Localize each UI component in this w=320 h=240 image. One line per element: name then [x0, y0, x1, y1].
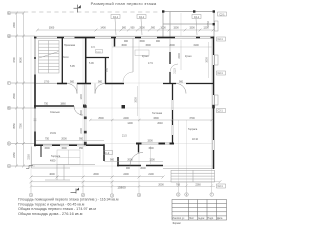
- svg-text:2500: 2500: [98, 117, 104, 120]
- svg-text:Прихожая: Прихожая: [64, 44, 76, 47]
- svg-text:1500: 1500: [173, 27, 179, 30]
- svg-text:5.06: 5.06: [89, 62, 94, 65]
- svg-text:С2-1: С2-1: [218, 72, 224, 75]
- svg-text:Размерный план первого этажа: Размерный план первого этажа: [91, 1, 157, 6]
- svg-text:4000: 4000: [49, 173, 55, 176]
- chimney stub: [40, 146, 42, 157]
- svg-text:2000: 2000: [140, 167, 146, 170]
- level mark bottom: [71, 189, 77, 194]
- svg-text:1500: 1500: [139, 40, 145, 43]
- svg-text:С2-1: С2-1: [218, 110, 224, 113]
- right exterior wall: [213, 37, 215, 170]
- svg-text:Лист: Лист: [189, 217, 195, 220]
- svg-text:2000: 2000: [127, 159, 133, 162]
- svg-text:2250: 2250: [13, 152, 16, 158]
- svg-text:№док: №док: [198, 217, 205, 220]
- svg-text:900: 900: [179, 81, 184, 84]
- svg-text:Изм.Кол.уч: Изм.Кол.уч: [172, 217, 185, 220]
- bottom dims: [31, 176, 163, 178]
- colonnade band y143.5: [136, 143, 142, 145]
- svg-text:1860: 1860: [60, 103, 66, 106]
- svg-text:Площадь помещений первого этаж: Площадь помещений первого этажа (отаплив…: [18, 198, 119, 202]
- svg-text:2600: 2600: [93, 173, 99, 176]
- exterior left wall: [34, 37, 36, 39]
- right side tag boxes: [217, 37, 226, 188]
- svg-text:900: 900: [98, 81, 103, 84]
- svg-text:Формат: Формат: [173, 222, 182, 225]
- svg-text:1500: 1500: [189, 27, 195, 30]
- left rotated dim texts: [13, 22, 23, 158]
- svg-text:3550: 3550: [13, 123, 16, 129]
- staircase: [39, 41, 60, 74]
- svg-text:3000: 3000: [49, 27, 55, 30]
- svg-text:1400: 1400: [100, 27, 106, 30]
- svg-text:1500: 1500: [145, 44, 151, 47]
- interior dim row y47 right: [112, 46, 212, 48]
- svg-text:2040: 2040: [157, 122, 163, 125]
- mid dim row above y165 wall: [104, 161, 163, 163]
- room labels: [50, 44, 199, 163]
- svg-text:Сг-1: Сг-1: [96, 51, 101, 53]
- svg-text:3100: 3100: [193, 44, 199, 47]
- svg-text:Спальня: Спальня: [50, 111, 60, 114]
- svg-text:2100: 2100: [148, 173, 154, 176]
- svg-text:2000: 2000: [139, 27, 145, 30]
- svg-text:2300: 2300: [13, 22, 16, 28]
- svg-text:7200: 7200: [20, 123, 23, 129]
- svg-text:1200: 1200: [149, 159, 155, 162]
- bottom wall left section: [34, 144, 104, 146]
- svg-text:900: 900: [70, 81, 75, 84]
- window tag boxes top: [111, 12, 227, 35]
- svg-text:900: 900: [156, 40, 161, 43]
- wall y106: [34, 105, 74, 107]
- svg-text:2000: 2000: [178, 53, 181, 59]
- mid-bottom walls: [103, 144, 105, 161]
- interior dim row y120: [90, 119, 212, 121]
- entry door arc: [130, 153, 143, 166]
- exterior top wall: [34, 37, 214, 39]
- bottom-right terrace steps: [163, 169, 215, 183]
- svg-text:15.81: 15.81: [50, 132, 57, 135]
- svg-text:18.10: 18.10: [192, 138, 199, 141]
- top-right terrace outline: [163, 12, 214, 38]
- svg-text:С2-1: С2-1: [218, 185, 224, 188]
- svg-text:Общая площадь дома - 276.16 кв: Общая площадь дома - 276.16 кв.м: [18, 211, 83, 216]
- svg-text:4700: 4700: [13, 57, 16, 63]
- interior vertical dim chain x84.5: [84, 85, 86, 146]
- level mark top: [74, 5, 78, 13]
- bottom-left terrace thin outline: [32, 147, 96, 181]
- svg-text:17.9: 17.9: [148, 62, 153, 65]
- svg-text:3000: 3000: [121, 44, 127, 47]
- svg-text:Дата: Дата: [217, 217, 223, 220]
- terrace inner steps rect: [57, 150, 80, 165]
- bottom axis circles: [29, 193, 213, 198]
- left axis circles: [7, 11, 11, 168]
- svg-text:С2-1: С2-1: [219, 13, 225, 16]
- svg-text:С2-1: С2-1: [218, 38, 224, 41]
- svg-text:Площадь террас и крыльца - 60.: Площадь террас и крыльца - 60.45 кв.м: [18, 202, 85, 206]
- axis lines vertical light: [31, 37, 212, 193]
- top dimension row (single): [37, 29, 213, 31]
- left dimension chains: [17, 13, 24, 166]
- svg-text:Подп.: Подп.: [208, 217, 215, 220]
- svg-text:Терраса: Терраса: [188, 128, 198, 131]
- svg-text:Холл: Холл: [63, 56, 69, 59]
- svg-text:3000: 3000: [135, 97, 138, 103]
- axis lines horizontal light: [11, 36, 214, 166]
- dims above wall y106: [44, 103, 66, 106]
- svg-text:Кухня: Кухня: [142, 55, 149, 58]
- svg-text:С2-1: С2-1: [113, 16, 119, 19]
- svg-text:900: 900: [151, 27, 156, 30]
- right colonnade wall x172.5: [172, 84, 174, 100]
- circle leader stubs: [31, 182, 212, 193]
- svg-text:2000: 2000: [169, 44, 175, 47]
- svg-text:900: 900: [122, 27, 127, 30]
- svg-text:950: 950: [79, 147, 84, 150]
- svg-text:2000: 2000: [61, 138, 67, 141]
- svg-text:2200: 2200: [80, 128, 83, 134]
- svg-text:1500: 1500: [147, 140, 153, 143]
- svg-text:Сг-2: Сг-2: [105, 152, 110, 155]
- axis line E horizontal dashed: [11, 11, 24, 13]
- faint interior vertical chains: [180, 40, 182, 70]
- svg-text:2000: 2000: [158, 184, 164, 187]
- svg-text:750: 750: [45, 138, 50, 141]
- svg-text:2260: 2260: [195, 184, 201, 187]
- svg-text:Кухня: Кухня: [185, 55, 192, 58]
- svg-text:1500: 1500: [61, 147, 67, 150]
- horizontal interior wall y83.5: [36, 83, 57, 85]
- svg-text:950: 950: [79, 138, 84, 141]
- svg-text:2400: 2400: [123, 173, 129, 176]
- svg-text:2250: 2250: [28, 154, 31, 160]
- svg-text:900: 900: [124, 40, 129, 43]
- svg-text:С2-1: С2-1: [194, 16, 200, 19]
- svg-text:3300: 3300: [153, 117, 159, 120]
- Сг-2 tag: [104, 151, 113, 155]
- svg-text:Гостиная: Гостиная: [152, 112, 163, 115]
- svg-text:15800: 15800: [117, 186, 126, 190]
- svg-text:900: 900: [126, 167, 131, 170]
- svg-text:1400: 1400: [127, 122, 133, 125]
- svg-text:8000: 8000: [20, 57, 23, 63]
- svg-text:С2-1: С2-1: [139, 16, 145, 19]
- window boxes sticking right: [215, 21, 219, 105]
- svg-text:1800: 1800: [80, 94, 83, 100]
- svg-text:3700: 3700: [189, 117, 195, 120]
- svg-text:Терраса: Терраса: [51, 155, 61, 158]
- svg-text:4000: 4000: [50, 160, 56, 163]
- svg-text:5.95: 5.95: [70, 65, 75, 68]
- svg-text:750: 750: [44, 103, 49, 106]
- interior walls: [114, 38, 116, 47]
- svg-text:900: 900: [131, 27, 136, 30]
- svg-text:2500: 2500: [80, 110, 83, 116]
- svg-text:3000: 3000: [206, 57, 209, 63]
- left circle leaders: [11, 13, 35, 166]
- bottom-left text block: [18, 198, 119, 217]
- svg-text:1790: 1790: [44, 81, 50, 84]
- left dim ticks: [15, 12, 25, 168]
- door arcs: [67, 84, 77, 94]
- svg-text:2400: 2400: [123, 117, 129, 120]
- small dim row above bottom-left wall y140.5: [36, 140, 104, 142]
- svg-text:21.5: 21.5: [122, 135, 127, 138]
- svg-text:800: 800: [106, 67, 109, 72]
- title block table: [172, 200, 227, 221]
- svg-text:2110: 2110: [174, 68, 177, 74]
- svg-text:1500: 1500: [44, 147, 50, 150]
- svg-text:2500: 2500: [13, 93, 16, 99]
- svg-text:900: 900: [110, 159, 115, 162]
- svg-text:С.У.: С.У.: [91, 46, 96, 49]
- svg-text:1500: 1500: [148, 147, 154, 150]
